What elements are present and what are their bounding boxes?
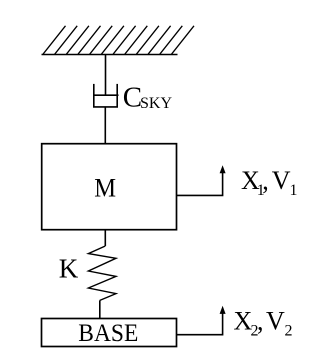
arrow X2,V2 head	[220, 306, 226, 314]
svg-text:BASE: BASE	[78, 320, 138, 347]
fixed ceiling support: hatching	[43, 26, 194, 54]
damper C_SKY: cylinder bottom	[93, 106, 118, 108]
wire: rod from mass bottom to spring	[104, 230, 106, 246]
arrow X1,V1 head	[220, 165, 226, 173]
wire: horizontal from BASE to X2 arrow	[177, 312, 223, 335]
spring K zigzag	[88, 246, 116, 300]
mass M box	[42, 144, 177, 230]
fixed ceiling support: baseline	[42, 54, 178, 56]
svg-text:V: V	[266, 307, 285, 336]
damper C_SKY: cylinder left wall	[93, 84, 95, 107]
wire: rod from damper bottom to mass	[104, 107, 106, 144]
svg-text:,: ,	[262, 166, 269, 195]
wire: horizontal from mass to X1 arrow	[177, 171, 223, 195]
damper C_SKY: cylinder right wall	[116, 84, 118, 107]
svg-text:SKY: SKY	[140, 95, 172, 112]
svg-text:M: M	[94, 173, 116, 202]
svg-text:1: 1	[290, 182, 298, 199]
wire: rod from spring to BASE	[99, 300, 101, 318]
svg-text:V: V	[272, 166, 291, 195]
svg-text:K: K	[59, 254, 79, 284]
svg-text:,: ,	[257, 307, 264, 336]
damper C_SKY: piston plate	[94, 94, 119, 96]
base box	[42, 319, 177, 347]
wire: rod from ceiling down to damper piston	[105, 55, 107, 96]
svg-text:2: 2	[285, 323, 293, 340]
